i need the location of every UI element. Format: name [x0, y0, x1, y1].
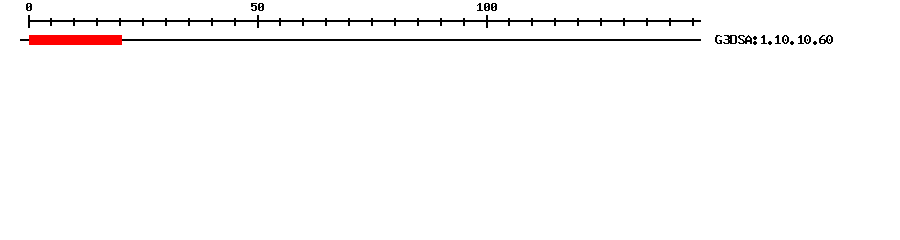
ruler scale label "50": [251, 3, 264, 11]
ruler scale label "0": [26, 3, 32, 11]
ruler scale label "100": [477, 3, 497, 11]
ruler major tick 0: [28, 15, 30, 28]
ruler major tick 100: [486, 15, 488, 28]
background: [0, 0, 900, 58]
ruler major tick 50: [257, 15, 259, 28]
ruler axis line: [28, 20, 701, 22]
domain feature box (red), residues ~0-20: [29, 35, 122, 45]
ruler minor ticks (every 5 aa): [50, 18, 694, 26]
feature label text "G3DSA:1.10.10.60": [715, 35, 833, 45]
sequence backbone line: [20, 39, 701, 41]
